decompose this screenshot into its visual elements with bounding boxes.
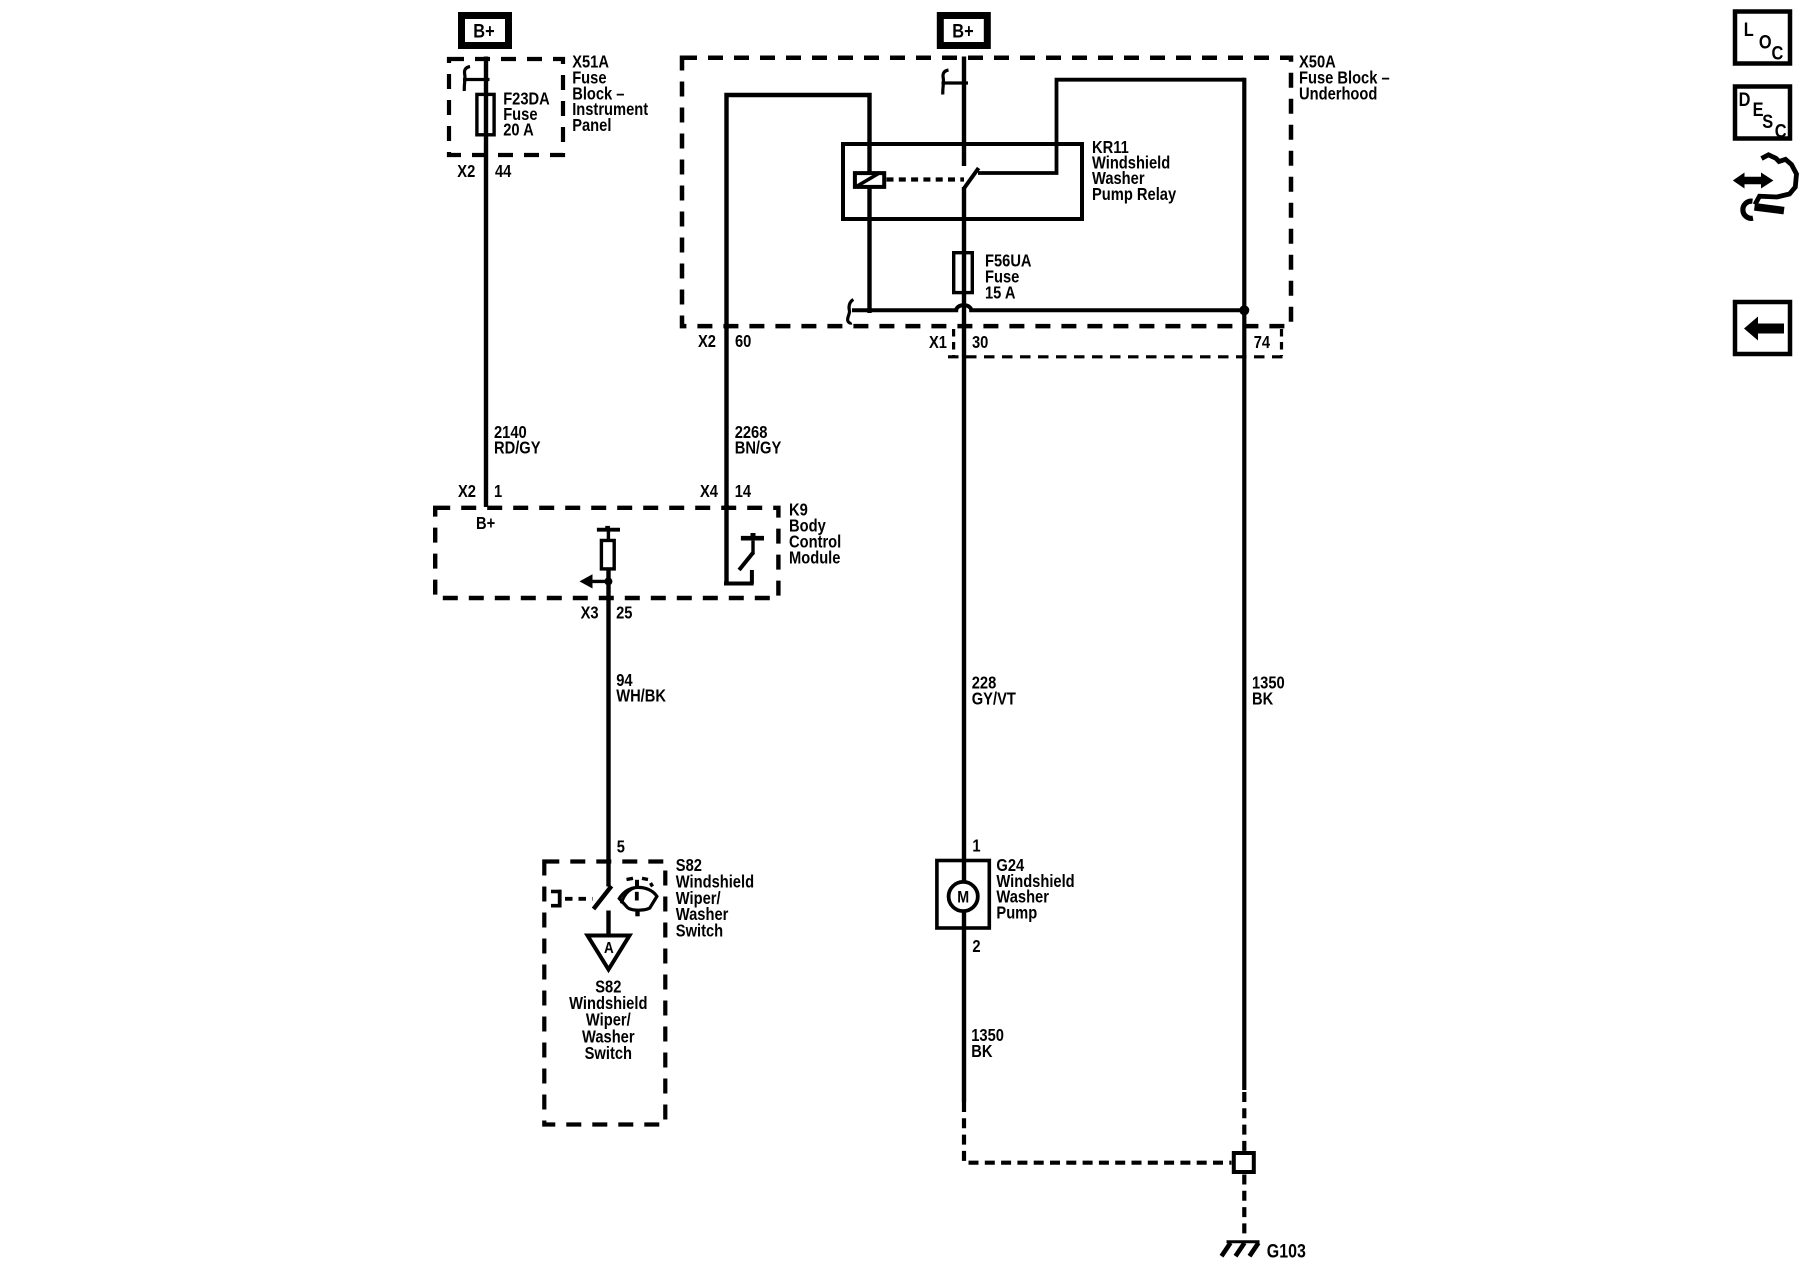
- dashed ground lead from motor wire to splice: [964, 1102, 1232, 1163]
- svg-text:X2: X2: [458, 482, 476, 501]
- splice block: [1234, 1153, 1254, 1172]
- arrow pointing left at BCM junction: [580, 574, 610, 588]
- svg-text:14: 14: [735, 482, 751, 501]
- svg-text:X2: X2: [457, 162, 475, 181]
- svg-text:2: 2: [972, 937, 980, 956]
- connector terminal hook at left end of bus: [848, 300, 854, 325]
- bus bar inside X50A with hop over center wire: [852, 305, 1244, 310]
- gang-operated triangle A symbol: [588, 936, 630, 970]
- junction dot in BCM output: [604, 577, 612, 585]
- svg-text:M: M: [957, 888, 969, 906]
- S82 dashed mechanical link: [565, 897, 593, 901]
- wire from relay coil feed: corner at (726.5,95) over to coil top: [727, 95, 870, 507]
- fuse block X50A dashed outline: [682, 58, 1291, 326]
- relay switch blade: [964, 168, 979, 189]
- svg-text:25: 25: [616, 603, 632, 622]
- wire from B+ through X51A fuse down to BCM: [484, 57, 488, 508]
- sidebar icon wiring/repair (arrows and wrench): [1733, 155, 1797, 219]
- svg-text:X1: X1: [929, 333, 947, 352]
- wire from relay blade down to fuse F56UA: [962, 187, 966, 253]
- right wire pin 74 down (solid part): [1242, 78, 1246, 1090]
- sidebar icon LOC: [1735, 12, 1790, 64]
- dashed lead splice to ground: [1242, 1175, 1246, 1239]
- dashed ground lead from right wire to splice: [1242, 1092, 1246, 1151]
- svg-text:60: 60: [735, 332, 751, 351]
- svg-text:C: C: [1775, 120, 1787, 142]
- fuse F23DA 20 A: [477, 94, 494, 134]
- fuse block X51A dashed outline: [449, 59, 563, 155]
- wire from fuse down through bus to motor: [962, 292, 966, 1102]
- svg-text:O: O: [1759, 31, 1772, 53]
- coil return wire down to bus: [867, 186, 871, 313]
- relay coil to switch dashed link: [887, 177, 965, 181]
- svg-text:G103: G103: [1267, 1240, 1306, 1262]
- washer spray icon: [619, 878, 657, 916]
- relay KR11 box: [843, 144, 1082, 219]
- svg-text:1: 1: [972, 836, 980, 855]
- relay coil: [855, 173, 884, 187]
- svg-text:X3: X3: [581, 603, 599, 622]
- relay fixed contact line to right side: [978, 80, 1244, 173]
- svg-text:B+: B+: [476, 514, 495, 533]
- svg-text:X2: X2: [698, 332, 716, 351]
- S82 mechanical link bracket: [551, 890, 562, 908]
- connector terminal hook on wire in X51A: [463, 67, 490, 92]
- svg-text:B+: B+: [952, 20, 973, 42]
- connector terminal hook on B+ wire in X50A: [942, 70, 969, 95]
- svg-text:30: 30: [972, 333, 988, 352]
- svg-text:X4: X4: [700, 482, 718, 501]
- wire from resistor to output junction, exits BCM down to S82: [606, 569, 610, 862]
- windshield washer pump motor G24: [937, 861, 989, 929]
- power symbol B+ (right, underhood feed): [940, 16, 987, 46]
- sidebar icon DESC: [1735, 87, 1790, 142]
- svg-text:1: 1: [494, 482, 502, 501]
- fuse F56UA 15 A: [954, 253, 973, 293]
- svg-text:S: S: [1762, 110, 1773, 132]
- wire from B+ down to relay switch: [962, 57, 966, 167]
- junction dot bus to right wire: [1239, 305, 1249, 315]
- BCM internal resistor: [601, 540, 614, 568]
- svg-text:L: L: [1744, 18, 1754, 40]
- ground symbol G103: [1222, 1242, 1260, 1257]
- S82 switch wire and blade: [594, 862, 612, 938]
- svg-text:44: 44: [495, 162, 511, 181]
- power symbol B+ (left, instrument panel feed): [462, 16, 509, 46]
- svg-text:A: A: [604, 940, 614, 957]
- sidebar icon back arrow: [1735, 302, 1790, 354]
- svg-text:74: 74: [1254, 333, 1270, 352]
- svg-text:5: 5: [617, 837, 625, 856]
- svg-text:B+: B+: [473, 20, 494, 42]
- BCM internal supply T-bar and stub: [597, 526, 620, 541]
- svg-text:D: D: [1739, 88, 1751, 110]
- windshield wiper/washer switch S82 dashed outline: [544, 862, 665, 1125]
- connector X1 dotted bracket: [952, 329, 955, 356]
- body control module K9 dashed outline: [435, 508, 778, 598]
- svg-text:C: C: [1772, 42, 1784, 64]
- BCM low-side driver switch (X4/14 branch): [724, 505, 764, 584]
